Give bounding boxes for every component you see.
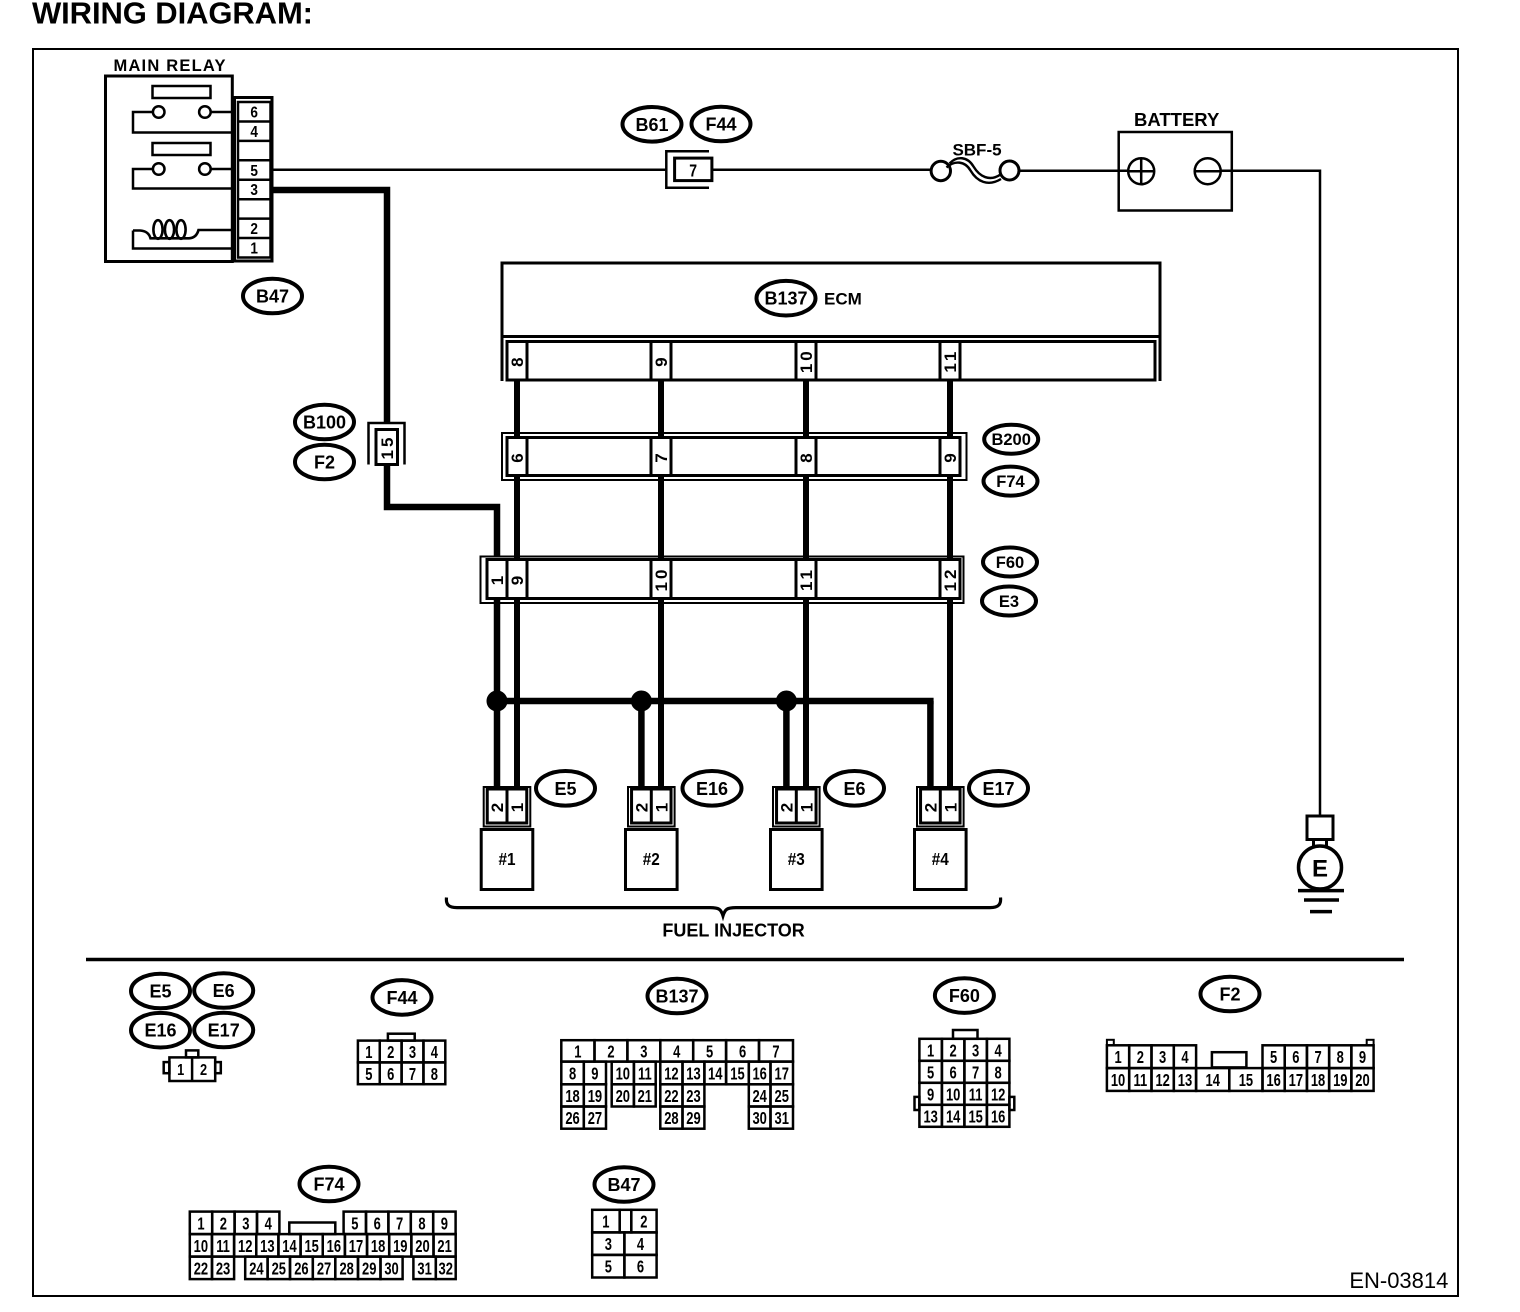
svg-text:5: 5	[365, 1065, 372, 1085]
svg-text:13: 13	[1178, 1071, 1193, 1091]
svg-text:12: 12	[664, 1065, 679, 1085]
thick wire connector 15 to F60/E3 pin 1	[387, 465, 497, 557]
F60/E3 pin 10 cell	[651, 560, 671, 599]
fusible link SBF-5 left circle	[931, 161, 950, 180]
thick wire relay pin3 to connector 15	[272, 190, 387, 423]
svg-text:6: 6	[739, 1042, 746, 1062]
connector row F60/E3 inner box	[487, 560, 960, 599]
separator line between schematic and connector views	[86, 958, 1404, 962]
svg-text:16: 16	[1266, 1071, 1281, 1091]
svg-text:25: 25	[775, 1087, 790, 1107]
svg-text:10: 10	[652, 567, 671, 592]
connector F2 pinout grid	[1107, 1040, 1114, 1046]
battery minus terminal	[1195, 158, 1221, 184]
svg-text:7: 7	[772, 1042, 779, 1062]
svg-text:5: 5	[605, 1258, 612, 1278]
svg-text:1: 1	[574, 1042, 581, 1062]
svg-text:F60: F60	[996, 554, 1024, 572]
bus branch to injector 2 pin 2	[638, 701, 645, 789]
svg-text:B137: B137	[655, 986, 698, 1006]
svg-text:10: 10	[946, 1085, 961, 1105]
connector row F60/E3 outer box	[481, 557, 964, 604]
svg-text:4: 4	[265, 1214, 272, 1234]
svg-text:16: 16	[327, 1237, 342, 1257]
svg-text:24: 24	[249, 1259, 264, 1279]
junction dot 2	[631, 691, 651, 711]
svg-text:8: 8	[508, 354, 527, 366]
injector #3 body	[771, 830, 823, 890]
svg-text:6: 6	[950, 1063, 957, 1083]
svg-text:3: 3	[972, 1041, 979, 1061]
connector E16 oval label bottom	[131, 1013, 190, 1048]
wire relay pin5 to fuse 7	[272, 168, 666, 171]
svg-text:6: 6	[1292, 1048, 1299, 1068]
wire contact2 right to pin 5	[211, 168, 233, 171]
svg-text:17: 17	[1289, 1071, 1304, 1091]
svg-text:F2: F2	[1219, 984, 1240, 1004]
connector B61 oval label	[623, 107, 682, 142]
svg-text:E3: E3	[999, 593, 1019, 611]
svg-text:14: 14	[282, 1237, 297, 1257]
svg-text:4: 4	[673, 1042, 680, 1062]
injector #1 body	[481, 830, 533, 890]
connector B137 oval label	[757, 281, 816, 316]
relay contact 2 right terminal	[199, 163, 211, 175]
svg-text:4: 4	[250, 124, 258, 141]
ground symbol hatches	[1298, 889, 1344, 893]
injector #4 connector cells	[921, 789, 961, 823]
svg-text:10: 10	[194, 1237, 209, 1257]
svg-text:12: 12	[1155, 1071, 1170, 1091]
svg-text:8: 8	[431, 1065, 438, 1085]
svg-text:B61: B61	[635, 115, 668, 135]
svg-text:27: 27	[588, 1109, 603, 1129]
svg-text:EN-03814: EN-03814	[1349, 1268, 1448, 1293]
svg-text:3: 3	[640, 1042, 647, 1062]
svg-text:4: 4	[431, 1043, 438, 1063]
B200/F74 pin 7 cell	[651, 438, 671, 476]
connector B47 pinout grid	[592, 1210, 620, 1233]
svg-text:6: 6	[637, 1258, 644, 1278]
svg-text:5: 5	[706, 1042, 713, 1062]
svg-text:26: 26	[294, 1259, 309, 1279]
svg-text:B200: B200	[991, 431, 1030, 449]
svg-text:31: 31	[417, 1259, 432, 1279]
svg-text:F74: F74	[996, 473, 1025, 491]
svg-text:11: 11	[969, 1085, 983, 1105]
svg-text:7: 7	[396, 1214, 403, 1234]
svg-text:13: 13	[923, 1107, 938, 1127]
relay contact 1 left terminal	[153, 106, 165, 118]
svg-text:3: 3	[250, 182, 258, 199]
wire SBF-5 to battery plus	[1019, 170, 1128, 173]
svg-text:29: 29	[362, 1259, 377, 1279]
svg-text:18: 18	[565, 1087, 580, 1107]
ground E circle	[1299, 846, 1342, 889]
svg-text:#2: #2	[643, 849, 660, 869]
svg-text:11: 11	[216, 1237, 230, 1257]
svg-text:F44: F44	[386, 988, 417, 1008]
svg-text:B47: B47	[256, 286, 289, 306]
svg-text:2: 2	[1137, 1048, 1144, 1068]
svg-text:24: 24	[752, 1087, 767, 1107]
svg-text:8: 8	[418, 1214, 425, 1234]
svg-text:8: 8	[1337, 1048, 1344, 1068]
B200/F74 pin 6 cell	[507, 438, 527, 476]
svg-text:F44: F44	[705, 114, 736, 134]
wire F60/E3 pin 11 down to injector	[803, 599, 809, 790]
connector B137 pinout grid	[561, 1040, 594, 1061]
svg-text:15: 15	[730, 1065, 745, 1085]
wire contact2 left to pin 3	[133, 169, 232, 189]
svg-text:2: 2	[950, 1041, 957, 1061]
svg-text:1: 1	[797, 800, 816, 812]
svg-text:19: 19	[1333, 1071, 1348, 1091]
svg-text:ECM: ECM	[824, 290, 862, 309]
relay connector strip B47 outer	[235, 98, 273, 262]
ECM box B137	[502, 263, 1160, 337]
svg-text:9: 9	[941, 450, 960, 462]
junction dot 1	[487, 691, 507, 711]
relay contact 1 right terminal	[199, 106, 211, 118]
svg-text:23: 23	[686, 1087, 701, 1107]
svg-text:2: 2	[200, 1062, 207, 1080]
ECM side extensions	[501, 337, 504, 382]
relay contact 2 left terminal	[153, 163, 165, 175]
svg-text:1: 1	[488, 573, 507, 585]
svg-text:10: 10	[797, 348, 816, 373]
ECM row pin 10 cell	[796, 342, 816, 381]
svg-text:26: 26	[565, 1109, 580, 1129]
connector E6 oval label	[825, 771, 884, 806]
wire B200/F74 pin 8 down to F60/E3	[803, 476, 809, 560]
svg-text:28: 28	[664, 1109, 679, 1129]
svg-text:29: 29	[686, 1109, 701, 1129]
ground E connector box	[1307, 816, 1333, 840]
svg-text:17: 17	[349, 1237, 364, 1257]
injector #1 connector cells	[487, 789, 527, 823]
svg-text:21: 21	[437, 1237, 452, 1257]
svg-text:F60: F60	[949, 986, 980, 1006]
injector #4 connector outer	[917, 787, 964, 827]
svg-text:8: 8	[995, 1063, 1002, 1083]
svg-text:5: 5	[927, 1063, 934, 1083]
svg-text:14: 14	[946, 1107, 961, 1127]
wire F60/E3 pin 12 down to injector	[947, 599, 953, 790]
svg-text:9: 9	[652, 354, 671, 366]
connector E5 oval label	[536, 771, 595, 806]
svg-text:B137: B137	[764, 289, 807, 309]
svg-text:20: 20	[1355, 1071, 1370, 1091]
svg-text:2: 2	[220, 1214, 227, 1234]
svg-text:B47: B47	[607, 1175, 640, 1195]
wire B200/F74 pin 9 down to F60/E3	[947, 476, 953, 560]
svg-text:10: 10	[1111, 1071, 1126, 1091]
svg-text:12: 12	[238, 1237, 253, 1257]
connector E17 oval label bottom	[194, 1013, 253, 1048]
svg-text:19: 19	[393, 1237, 408, 1257]
svg-text:1: 1	[652, 800, 671, 812]
svg-text:4: 4	[1181, 1048, 1188, 1068]
svg-text:5: 5	[1270, 1048, 1277, 1068]
svg-text:1: 1	[177, 1062, 184, 1080]
connector F60 oval label	[983, 548, 1037, 577]
svg-text:28: 28	[339, 1259, 354, 1279]
svg-text:22: 22	[194, 1259, 209, 1279]
wire contact1 left to pin 4	[133, 112, 232, 133]
bus corner down to injector 4 pin 2	[927, 701, 934, 789]
svg-text:9: 9	[927, 1085, 934, 1105]
svg-text:20: 20	[616, 1087, 631, 1107]
svg-text:11: 11	[797, 567, 816, 591]
svg-text:E5: E5	[554, 779, 576, 799]
injector #1 connector outer	[484, 787, 531, 827]
inline connector 15 box	[376, 430, 398, 465]
connector row B200/F74 inner box	[507, 438, 960, 476]
ECM row pin 11 cell	[940, 342, 960, 381]
svg-text:3: 3	[242, 1214, 249, 1234]
svg-text:#4: #4	[932, 849, 950, 869]
svg-text:4: 4	[995, 1041, 1002, 1061]
svg-text:BATTERY: BATTERY	[1134, 109, 1220, 130]
svg-text:14: 14	[1205, 1071, 1220, 1091]
fuse No.7 box	[675, 158, 712, 181]
ECM row pin 9 cell	[651, 342, 671, 381]
svg-text:E17: E17	[982, 779, 1014, 799]
wire ECM pin 10 down to B200/F74	[803, 380, 809, 438]
relay coil	[133, 230, 232, 238]
svg-text:2: 2	[922, 800, 941, 812]
svg-text:1: 1	[602, 1213, 609, 1233]
svg-text:2: 2	[778, 800, 797, 812]
injector supply bus	[497, 698, 934, 705]
wire battery minus to ground E	[1221, 171, 1320, 816]
svg-text:4: 4	[637, 1235, 644, 1255]
connector B200 oval label	[984, 425, 1038, 454]
svg-text:2: 2	[640, 1213, 647, 1233]
svg-text:21: 21	[638, 1087, 653, 1107]
svg-text:9: 9	[591, 1065, 598, 1085]
svg-text:8: 8	[569, 1065, 576, 1085]
svg-text:B100: B100	[303, 412, 346, 432]
svg-text:15: 15	[304, 1237, 319, 1257]
svg-text:2: 2	[488, 800, 507, 812]
svg-text:23: 23	[216, 1259, 231, 1279]
connector F44 oval label	[692, 107, 751, 142]
svg-text:6: 6	[508, 450, 527, 462]
wire B200/F74 pin 7 down to F60/E3	[658, 476, 664, 560]
svg-text:E6: E6	[213, 981, 235, 1001]
svg-text:3: 3	[605, 1235, 612, 1255]
F60/E3 pin 9 cell	[507, 560, 527, 599]
svg-text:18: 18	[1311, 1071, 1326, 1091]
connector E17 oval label	[969, 771, 1028, 806]
bus branch to injector 3 pin 2	[783, 701, 790, 789]
main relay box	[106, 76, 233, 262]
junction dot 3	[776, 691, 796, 711]
svg-text:#1: #1	[498, 849, 515, 869]
wire F60/E3 pin 10 down to injector	[658, 599, 664, 790]
connector F74 oval label bottom	[300, 1167, 359, 1202]
ground E legs	[1312, 840, 1315, 849]
svg-text:15: 15	[1239, 1071, 1254, 1091]
svg-text:31: 31	[775, 1109, 790, 1129]
svg-text:E16: E16	[696, 779, 728, 799]
svg-text:WIRING DIAGRAM:: WIRING DIAGRAM:	[32, 0, 313, 31]
wire ECM pin 11 down to B200/F74	[947, 380, 953, 438]
svg-text:1: 1	[927, 1041, 934, 1061]
svg-text:9: 9	[508, 573, 527, 585]
svg-text:11: 11	[638, 1065, 652, 1085]
connector E3 oval label	[982, 587, 1036, 616]
svg-text:30: 30	[752, 1109, 767, 1129]
svg-text:2: 2	[607, 1042, 614, 1062]
svg-text:7: 7	[689, 161, 697, 181]
svg-text:F2: F2	[314, 452, 335, 472]
svg-text:17: 17	[775, 1065, 790, 1085]
connector F44 oval label bottom	[373, 980, 432, 1015]
connector B137 oval label bottom	[648, 979, 707, 1014]
svg-text:7: 7	[1314, 1048, 1321, 1068]
fusible link SBF-5 right circle	[1000, 161, 1019, 180]
svg-text:11: 11	[941, 349, 960, 373]
connector F2 oval label bottom	[1201, 977, 1260, 1012]
svg-text:15: 15	[968, 1107, 983, 1127]
connector E16 oval label	[683, 771, 742, 806]
svg-text:16: 16	[991, 1107, 1006, 1127]
B200/F74 pin 9 cell	[940, 438, 960, 476]
svg-text:6: 6	[387, 1065, 394, 1085]
injector #3 connector outer	[773, 787, 820, 827]
svg-text:11: 11	[1134, 1071, 1148, 1091]
injector connector pinout 2-pin	[186, 1050, 198, 1057]
svg-text:3: 3	[409, 1043, 416, 1063]
injector #2 connector outer	[628, 787, 675, 827]
svg-text:15: 15	[378, 435, 397, 460]
connector E5 oval label bottom	[131, 974, 190, 1009]
svg-text:E17: E17	[208, 1020, 240, 1040]
ECM connector row pins 8-11 box	[507, 342, 1155, 381]
connector B47 oval label bottom	[595, 1167, 654, 1202]
svg-text:E6: E6	[843, 779, 865, 799]
wire ECM pin 9 down to B200/F74	[658, 380, 664, 438]
svg-text:12: 12	[991, 1085, 1006, 1105]
svg-text:5: 5	[250, 163, 258, 180]
wire F60/E3 pin 9 down to injector	[514, 599, 520, 790]
svg-text:19: 19	[588, 1087, 603, 1107]
injector #4 body	[915, 830, 967, 890]
injector #2 body	[626, 830, 678, 890]
svg-text:3: 3	[1159, 1048, 1166, 1068]
svg-text:13: 13	[686, 1065, 701, 1085]
F60/E3 pin 12 cell	[940, 560, 960, 599]
connector F2 oval label	[295, 445, 354, 480]
svg-text:32: 32	[439, 1259, 454, 1279]
connector F60 oval label bottom	[935, 978, 994, 1013]
fuel injector brace	[446, 898, 1000, 916]
wire contact1 right to pin 6	[211, 111, 233, 114]
injector #3 connector cells	[777, 789, 817, 823]
svg-text:18: 18	[371, 1237, 386, 1257]
svg-text:5: 5	[351, 1214, 358, 1234]
connector E6 oval label bottom	[194, 973, 253, 1008]
svg-text:7: 7	[652, 450, 671, 462]
svg-text:1: 1	[365, 1043, 372, 1063]
svg-text:2: 2	[387, 1043, 394, 1063]
svg-text:6: 6	[250, 105, 258, 122]
svg-text:14: 14	[708, 1065, 723, 1085]
svg-text:12: 12	[941, 567, 960, 592]
svg-text:F74: F74	[313, 1174, 344, 1194]
svg-text:7: 7	[409, 1065, 416, 1085]
F60/E3 pin 11 cell	[796, 560, 816, 599]
svg-text:SBF-5: SBF-5	[952, 141, 1001, 160]
connector row B200/F74 outer box	[502, 433, 967, 480]
connector F74 oval label	[984, 467, 1038, 496]
svg-text:9: 9	[1359, 1048, 1366, 1068]
wire fuse 7 to SBF-5	[712, 168, 931, 171]
svg-text:#3: #3	[788, 849, 805, 869]
connector F60 pinout grid	[953, 1030, 978, 1039]
svg-text:1: 1	[250, 241, 258, 258]
svg-text:1: 1	[197, 1214, 204, 1234]
wire B200/F74 pin 6 down to F60/E3	[514, 476, 520, 560]
svg-text:1: 1	[1114, 1048, 1121, 1068]
svg-text:E16: E16	[144, 1021, 176, 1041]
battery plus terminal	[1128, 158, 1154, 184]
svg-text:7: 7	[972, 1063, 979, 1083]
svg-text:FUEL INJECTOR: FUEL INJECTOR	[662, 921, 804, 941]
battery box	[1119, 132, 1232, 211]
svg-text:E5: E5	[149, 981, 171, 1001]
connector F74 pinout grid	[190, 1212, 212, 1235]
svg-text:9: 9	[441, 1214, 448, 1234]
fuse No.7 outer bracket	[666, 151, 709, 188]
svg-text:1: 1	[941, 800, 960, 812]
svg-text:MAIN RELAY: MAIN RELAY	[114, 57, 227, 75]
injector #2 connector cells	[632, 789, 672, 823]
svg-text:2: 2	[250, 221, 258, 238]
F60/E3 pin 1 cell	[487, 560, 507, 599]
svg-text:6: 6	[374, 1214, 381, 1234]
fusible link SBF-5 element	[950, 158, 1001, 178]
svg-text:8: 8	[797, 450, 816, 462]
svg-text:25: 25	[272, 1259, 287, 1279]
svg-text:10: 10	[616, 1065, 631, 1085]
inline connector 15 B100/F2 outer bracket	[369, 423, 405, 465]
connector B100 oval label	[295, 405, 354, 440]
svg-text:2: 2	[633, 800, 652, 812]
svg-text:27: 27	[317, 1259, 332, 1279]
B200/F74 pin 8 cell	[796, 438, 816, 476]
connector B47 oval label	[243, 279, 302, 314]
svg-text:13: 13	[260, 1237, 275, 1257]
svg-text:16: 16	[752, 1065, 767, 1085]
svg-text:22: 22	[664, 1087, 679, 1107]
svg-text:1: 1	[508, 800, 527, 812]
svg-text:E: E	[1312, 856, 1328, 883]
relay resistor bar 2	[153, 143, 211, 155]
svg-text:20: 20	[415, 1237, 430, 1257]
relay resistor bar 1	[153, 86, 211, 98]
thick wire F60/E3 pin 1 down to injector 1 pin 2	[494, 599, 501, 790]
wire coil to pin 1	[133, 231, 232, 249]
wire ECM pin 8 down to B200/F74	[514, 380, 520, 438]
connector F44 pinout grid	[388, 1034, 415, 1041]
relay connector strip B47 cells	[238, 102, 271, 258]
ECM row pin 8 cell	[507, 342, 527, 381]
svg-text:30: 30	[384, 1259, 399, 1279]
